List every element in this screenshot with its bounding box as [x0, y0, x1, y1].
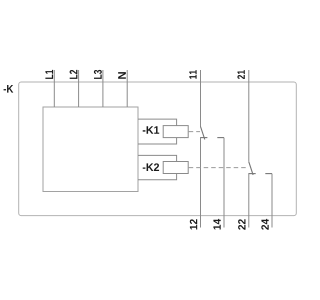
contact K1 NO hook 14 — [217, 137, 224, 139]
wire N — [126, 70, 128, 107]
wire L3 — [102, 70, 104, 107]
wire box to coil K2 top — [138, 155, 177, 161]
wire terminal 12 — [200, 138, 202, 228]
wire box to coil K1 top — [138, 119, 177, 126]
terminal label 24 — [261, 219, 268, 230]
wire terminal 21 — [248, 70, 250, 162]
terminal label L3 — [94, 70, 102, 79]
contact K2 NO hook 24 — [265, 173, 272, 175]
mechanical link K2 dashed — [189, 167, 249, 169]
terminal label 14 — [213, 219, 220, 230]
terminal label 11 — [189, 70, 196, 79]
wire coil K2 bottom to box — [138, 174, 177, 180]
wire terminal 24 — [271, 174, 273, 228]
label -K2 — [143, 163, 159, 171]
wire terminal 14 — [223, 138, 225, 228]
relay coil K1 — [163, 126, 188, 138]
contact K2 NC tick 22 — [248, 173, 255, 175]
device frame -K — [19, 82, 297, 216]
terminal label 22 — [238, 219, 245, 230]
relay coil K2 — [163, 162, 188, 174]
label -K — [4, 85, 14, 93]
label -K1 — [143, 126, 159, 134]
measuring unit box — [43, 107, 138, 192]
terminal label 21 — [237, 70, 244, 79]
wire coil K1 bottom to box — [138, 138, 177, 144]
wire terminal 11 — [200, 70, 202, 127]
terminal label L1 — [45, 70, 53, 79]
wire L1 — [53, 70, 55, 107]
mechanical link K1 dashed — [189, 131, 200, 133]
wire L2 — [78, 70, 80, 107]
contact K1 blade 11-12 — [201, 127, 205, 140]
terminal label N — [118, 72, 126, 79]
contact K1 NC tick 12 — [200, 137, 207, 139]
contact K2 blade 21-22 — [249, 162, 253, 175]
wire terminal 22 — [248, 174, 250, 228]
terminal label L2 — [70, 70, 78, 79]
terminal label 12 — [190, 219, 197, 229]
